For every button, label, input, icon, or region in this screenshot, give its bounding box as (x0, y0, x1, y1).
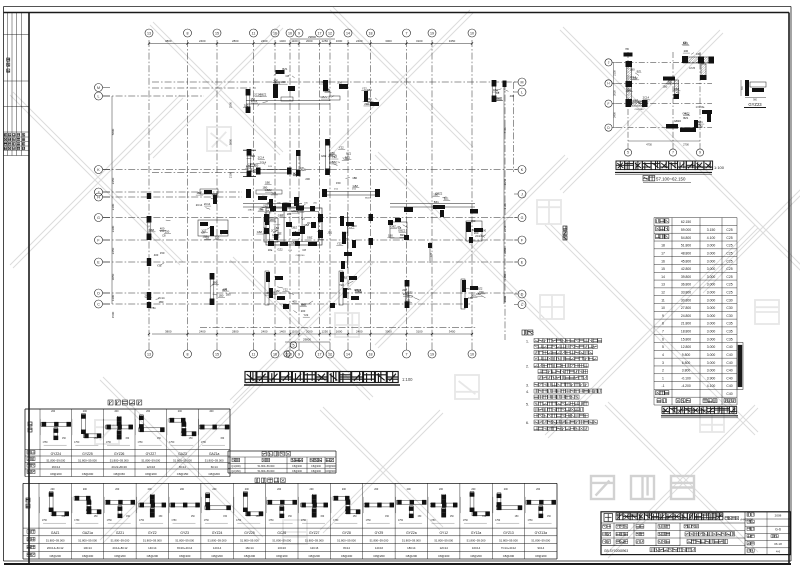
svg-text:C8@200: C8@200 (292, 465, 303, 468)
svg-text:GYZ24: GYZ24 (212, 531, 223, 535)
svg-text:3.000: 3.000 (707, 337, 716, 341)
stair plan cluster center (663, 77, 675, 81)
svg-text:2C14: 2C14 (254, 92, 261, 96)
svg-text:7: 7 (406, 352, 408, 356)
svg-text:1: 1 (662, 376, 664, 380)
svg-text:C8: C8 (162, 233, 166, 237)
right cluster D3 (466, 221, 482, 241)
wall column table left labels (26, 498, 30, 502)
svg-text:3.000: 3.000 (707, 314, 716, 318)
GYZ23 detail (745, 80, 749, 96)
svg-text:1750: 1750 (527, 520, 533, 522)
svg-text:1750: 1750 (106, 442, 112, 444)
svg-text:C40: C40 (726, 384, 732, 388)
svg-text:1150: 1150 (503, 274, 507, 281)
svg-text:2000: 2000 (306, 330, 313, 334)
svg-text:3.000: 3.000 (707, 330, 716, 334)
svg-text:1B0: 1B0 (265, 180, 270, 184)
svg-text:GYZ27: GYZ27 (309, 531, 320, 535)
wall column cluster A3 (axis 8/M) (323, 80, 328, 91)
bottom small ticks (283, 304, 289, 309)
svg-text:G: G (97, 216, 100, 220)
svg-text:200: 200 (439, 488, 444, 491)
svg-text:7: 7 (672, 151, 674, 155)
svg-text:150: 150 (336, 181, 341, 185)
svg-text:150: 150 (468, 296, 473, 300)
stair-roof plan bottom bubbles (624, 149, 631, 156)
svg-text:D: D (521, 292, 524, 296)
svg-text:1:100: 1:100 (402, 377, 413, 382)
svg-text:10C14: 10C14 (472, 546, 481, 550)
svg-text:4730: 4730 (646, 143, 652, 147)
svg-text:M: M (521, 80, 524, 84)
svg-text:J: J (521, 192, 523, 196)
svg-text:2400: 2400 (356, 39, 363, 43)
svg-text:200: 200 (482, 229, 487, 233)
svg-text:13: 13 (661, 283, 665, 287)
stair-roof plan subtitle (643, 176, 648, 181)
svg-text:2: 2 (662, 369, 664, 373)
svg-text:3800: 3800 (165, 330, 172, 334)
stair plan cluster top-right wall (683, 57, 713, 63)
svg-text:200: 200 (337, 81, 342, 85)
svg-text:LTB1: LTB1 (150, 308, 156, 310)
svg-text:8C14: 8C14 (343, 546, 350, 550)
svg-text:1750: 1750 (107, 520, 113, 522)
svg-text:51.800~59.000: 51.800~59.000 (531, 539, 550, 543)
svg-text:200: 200 (374, 488, 379, 491)
svg-text:Y22: Y22 (303, 313, 308, 317)
svg-text:B5@2: B5@2 (365, 198, 372, 200)
svg-text:C8@200: C8@200 (244, 554, 256, 558)
title block logo (604, 514, 613, 522)
svg-text:3000: 3000 (385, 330, 392, 334)
svg-text:4-6: 4-6 (776, 549, 781, 553)
svg-text:C8: C8 (248, 163, 252, 167)
svg-text:13: 13 (147, 31, 151, 35)
svg-text:C30: C30 (726, 306, 732, 310)
svg-text:1B0: 1B0 (291, 241, 296, 245)
svg-text:400: 400 (292, 300, 297, 304)
svg-text:2C14: 2C14 (158, 296, 165, 300)
svg-text:C35: C35 (726, 330, 732, 334)
svg-text:C25: C25 (726, 283, 732, 287)
wall pier table frame (25, 408, 230, 410)
svg-text:2130: 2130 (612, 70, 616, 76)
svg-text:18a: 18a (268, 248, 273, 252)
wall column cluster axis1/J (147, 217, 151, 239)
svg-text:1750: 1750 (42, 520, 48, 522)
svg-text:2C14: 2C14 (643, 95, 650, 99)
wall pier table title (108, 400, 113, 405)
svg-text:8C16+4C14: 8C16+4C14 (177, 546, 192, 550)
core right chain C3 (347, 212, 349, 268)
svg-text:1400: 1400 (279, 39, 286, 43)
svg-text:200: 200 (318, 219, 323, 223)
mid cluster D4 (405, 281, 409, 307)
svg-text:2400: 2400 (356, 330, 363, 334)
svg-text:400: 400 (154, 253, 159, 257)
svg-text:G8Z: G8Z (263, 230, 269, 234)
svg-text:BZ1: BZ1 (400, 233, 405, 237)
svg-text:1600: 1600 (336, 39, 343, 43)
svg-text:1500: 1500 (111, 311, 115, 318)
svg-text:1750: 1750 (495, 520, 501, 522)
svg-text:6C14: 6C14 (211, 465, 218, 469)
svg-text:5.: 5. (526, 403, 529, 407)
svg-text:C8: C8 (300, 166, 304, 170)
svg-text:G8Z: G8Z (391, 225, 397, 229)
svg-text:GYZ9: GYZ9 (375, 531, 384, 535)
stair-roof plan title (616, 161, 625, 170)
svg-text:2300: 2300 (111, 225, 115, 232)
svg-text:5: 5 (627, 151, 629, 155)
svg-text:51.800~59.000: 51.800~59.000 (78, 539, 97, 543)
svg-text:5800: 5800 (111, 128, 115, 135)
svg-text:LTB: LTB (288, 250, 292, 252)
svg-text:36.800: 36.800 (681, 283, 691, 287)
svg-text:27.800: 27.800 (681, 306, 691, 310)
svg-text:200: 200 (684, 49, 689, 53)
svg-text:Y22: Y22 (339, 145, 344, 149)
svg-text:H: H (97, 195, 100, 199)
stair plan cluster right-mid (702, 110, 712, 114)
svg-text:2.: 2. (526, 365, 529, 369)
notes block (522, 330, 527, 335)
svg-text:9C14: 9C14 (537, 546, 544, 550)
svg-text:1500: 1500 (503, 295, 507, 302)
wall column cluster axis1/E small (147, 258, 151, 266)
svg-text:16: 16 (273, 31, 277, 35)
svg-text:16C14: 16C14 (52, 465, 61, 469)
svg-text:Q1(200): Q1(200) (231, 465, 240, 468)
svg-text:Y22: Y22 (633, 76, 638, 80)
svg-text:C25: C25 (726, 267, 732, 271)
svg-text:C8@600: C8@600 (326, 465, 337, 468)
svg-text:200: 200 (305, 177, 310, 181)
svg-text:BZ1: BZ1 (637, 69, 642, 73)
left title strip table (7, 13, 9, 156)
svg-text:2400: 2400 (199, 39, 206, 43)
misc vertical label near plan right (563, 226, 567, 230)
svg-text:2020: 2020 (612, 90, 616, 96)
svg-text:51.800~59.000: 51.800~59.000 (208, 539, 227, 543)
svg-text:2350: 2350 (503, 178, 507, 185)
svg-text:2350: 2350 (111, 177, 115, 184)
svg-text:200: 200 (364, 102, 369, 106)
svg-text:06.18: 06.18 (774, 542, 782, 546)
right vertical dimension numbers (503, 82, 505, 304)
svg-text:4.: 4. (526, 390, 529, 394)
svg-text:42.800: 42.800 (681, 267, 691, 271)
svg-text:18C14: 18C14 (407, 546, 416, 550)
svg-text:2400: 2400 (612, 112, 616, 118)
svg-text:200: 200 (148, 488, 153, 491)
stair-roof plan left dim (613, 62, 615, 127)
svg-text:C8: C8 (322, 80, 326, 84)
svg-text:11: 11 (661, 298, 665, 302)
svg-text:F: F (608, 102, 610, 106)
svg-text:BZ1: BZ1 (347, 287, 352, 291)
mid cluster D5 (462, 280, 466, 292)
svg-text:150: 150 (367, 97, 372, 101)
main plan vertical grid lines (149, 40, 472, 345)
svg-text:3450: 3450 (449, 39, 456, 43)
wall pier table sketches (41, 422, 71, 426)
svg-text:29800: 29800 (303, 338, 311, 342)
svg-text:1B0: 1B0 (329, 153, 334, 157)
svg-text:10: 10 (288, 31, 292, 35)
svg-text:3.800: 3.800 (682, 369, 691, 373)
svg-text:150: 150 (160, 251, 165, 255)
svg-text:1B0: 1B0 (270, 218, 275, 222)
svg-text:L: L (521, 90, 523, 94)
svg-text:8: 8 (662, 322, 664, 326)
svg-text:17: 17 (318, 31, 322, 35)
svg-text:GBZ2: GBZ2 (398, 228, 406, 232)
svg-text:C8@200: C8@200 (535, 554, 547, 558)
svg-text:1400: 1400 (279, 330, 286, 334)
watermark bottom text (591, 476, 614, 499)
wall column cluster A5 (axis 12/M) (492, 81, 496, 101)
svg-text:18: 18 (369, 352, 373, 356)
svg-text:Y22: Y22 (339, 283, 344, 287)
svg-text:200: 200 (309, 488, 314, 491)
svg-text:51.800~59.000: 51.800~59.000 (305, 539, 324, 543)
svg-text:12C16: 12C16 (310, 546, 319, 550)
svg-text:51.800~59.000: 51.800~59.000 (46, 539, 65, 543)
svg-text:GB-SY02068963: GB-SY02068963 (604, 549, 628, 553)
svg-text:200: 200 (245, 488, 250, 491)
svg-text:13: 13 (147, 352, 151, 356)
svg-text:150: 150 (471, 219, 476, 223)
wall pier table left labels (28, 422, 32, 426)
svg-text:200: 200 (51, 410, 56, 413)
svg-text:12.800: 12.800 (681, 345, 691, 349)
svg-text:12C14: 12C14 (440, 546, 449, 550)
svg-text:GBZ2: GBZ2 (330, 160, 338, 164)
svg-text:C40: C40 (726, 376, 732, 380)
svg-text:GYZ25: GYZ25 (82, 452, 93, 456)
svg-text:C: C (97, 302, 100, 306)
svg-text:2500: 2500 (229, 101, 233, 108)
stair plan cluster mid-left wall (627, 101, 644, 106)
svg-text:1B0: 1B0 (159, 300, 164, 304)
wall column cluster A7 (axis 3/K) (247, 150, 251, 176)
svg-text:C8@200: C8@200 (82, 554, 94, 558)
svg-text:9: 9 (699, 151, 701, 155)
title block frame (601, 512, 791, 555)
svg-text:51.800~59.000: 51.800~59.000 (258, 470, 275, 473)
svg-text:1300: 1300 (111, 294, 115, 301)
svg-text:400: 400 (265, 291, 270, 295)
svg-text:200: 200 (114, 410, 119, 413)
svg-text:12: 12 (328, 31, 332, 35)
svg-text:C8: C8 (272, 291, 276, 295)
svg-text:1B0: 1B0 (196, 191, 201, 195)
svg-text:1250: 1250 (322, 330, 329, 334)
top axis bubbles (145, 29, 153, 37)
svg-text:10: 10 (470, 352, 474, 356)
svg-text:GZ21: GZ21 (116, 531, 124, 535)
title block bottom long row (601, 545, 745, 547)
svg-text:18: 18 (661, 244, 665, 248)
svg-text:GYZ2: GYZ2 (148, 531, 157, 535)
vertical dim line x430 (429, 242, 431, 263)
svg-text:C8@200: C8@200 (503, 554, 515, 558)
wall column cluster row J (axis 2-7) (246, 189, 251, 198)
svg-text:200: 200 (407, 488, 412, 491)
svg-text:15.800: 15.800 (681, 337, 691, 341)
left axis bubbles (95, 84, 103, 92)
svg-text:8: 8 (187, 31, 189, 35)
svg-text:C8@200: C8@200 (470, 554, 482, 558)
svg-text:17: 17 (661, 251, 665, 255)
svg-text:1600: 1600 (336, 330, 343, 334)
svg-text:10: 10 (470, 31, 474, 35)
svg-text:C8@200: C8@200 (276, 554, 288, 558)
svg-text:51.800~59.000: 51.800~59.000 (111, 539, 130, 543)
bottom axis bubbles (145, 350, 153, 358)
svg-text:1B0: 1B0 (352, 176, 357, 180)
svg-text:GAZ1: GAZ1 (51, 531, 60, 535)
svg-text:1750: 1750 (137, 442, 143, 444)
svg-text:3800: 3800 (165, 39, 172, 43)
main plan title (245, 372, 256, 383)
svg-text:1750: 1750 (398, 520, 404, 522)
svg-text:3.000: 3.000 (707, 259, 716, 263)
svg-text:16: 16 (273, 352, 277, 356)
svg-text:16C14: 16C14 (245, 546, 254, 550)
svg-text:GYZ25: GYZ25 (244, 531, 255, 535)
svg-text:GAZ1a: GAZ1a (82, 531, 93, 535)
svg-text:C8@200: C8@200 (311, 465, 322, 468)
svg-text:2008: 2008 (775, 513, 782, 517)
svg-text:16: 16 (661, 259, 665, 263)
svg-text:3.000: 3.000 (707, 322, 716, 326)
svg-text:57.100~62.150: 57.100~62.150 (656, 177, 686, 182)
svg-text:1B0: 1B0 (630, 68, 635, 72)
svg-text:C8@200: C8@200 (147, 554, 159, 558)
core left cluster C0 (198, 220, 228, 236)
svg-text:17: 17 (318, 352, 322, 356)
svg-text:39.800: 39.800 (681, 275, 691, 279)
svg-text:Y22: Y22 (277, 276, 282, 280)
svg-text:GBZ: GBZ (278, 213, 284, 217)
svg-text:BZ1: BZ1 (638, 101, 643, 105)
wall web reinforcement sub-table (228, 450, 336, 452)
svg-text:3.000: 3.000 (707, 298, 716, 302)
svg-text:1750: 1750 (236, 520, 242, 522)
svg-text:19: 19 (430, 352, 434, 356)
svg-text:51.800~59.000: 51.800~59.000 (467, 539, 486, 543)
svg-text:C8@200: C8@200 (50, 472, 62, 476)
svg-text:12: 12 (328, 352, 332, 356)
svg-text:2450: 2450 (111, 247, 115, 254)
small wall x298 K (296, 151, 298, 177)
svg-text:C8@200: C8@200 (82, 472, 94, 476)
svg-text:59.000: 59.000 (681, 228, 691, 232)
svg-text:6: 6 (286, 352, 288, 356)
svg-text:1250: 1250 (322, 39, 329, 43)
svg-text:14C16: 14C16 (375, 546, 384, 550)
svg-text:2C14: 2C14 (145, 293, 152, 297)
svg-text:BZ1: BZ1 (406, 298, 411, 302)
svg-text:5500: 5500 (503, 126, 507, 133)
svg-text:200: 200 (146, 410, 151, 413)
svg-text:BZ1: BZ1 (293, 172, 298, 176)
svg-text:G8Z: G8Z (301, 302, 307, 306)
svg-text:2400: 2400 (199, 330, 206, 334)
svg-text:200: 200 (180, 488, 185, 491)
svg-text:GAZ1a: GAZ1a (209, 452, 220, 456)
wall column table frame (23, 482, 557, 484)
svg-text:14C14: 14C14 (148, 546, 157, 550)
svg-text:2450: 2450 (503, 225, 507, 232)
svg-text:C8@200: C8@200 (308, 554, 320, 558)
svg-text:33.800: 33.800 (681, 290, 691, 294)
svg-text:D: D (97, 291, 100, 295)
svg-text:21.800: 21.800 (681, 322, 691, 326)
svg-text:GAZ3: GAZ3 (178, 452, 187, 456)
svg-text:Y22: Y22 (362, 87, 367, 91)
svg-text:C40: C40 (726, 361, 732, 365)
svg-text:C40: C40 (726, 392, 732, 396)
svg-text:3100: 3100 (416, 330, 423, 334)
svg-text:51.800~59.000: 51.800~59.000 (46, 458, 65, 462)
svg-text:3.150: 3.150 (707, 228, 716, 232)
svg-text:C8: C8 (496, 91, 500, 95)
certificate no (725, 517, 728, 520)
svg-text:7C14+4C12: 7C14+4C12 (501, 546, 516, 550)
wall wall segment K row (243, 149, 256, 151)
svg-text:C8@200: C8@200 (145, 472, 157, 476)
svg-text:1B0: 1B0 (212, 280, 217, 284)
svg-text:4.100: 4.100 (707, 236, 716, 240)
svg-text:18: 18 (369, 31, 373, 35)
svg-text:18a: 18a (293, 230, 298, 234)
svg-text:GBZ: GBZ (291, 226, 297, 230)
svg-text:GY12a: GY12a (471, 531, 481, 535)
svg-text:BZ1: BZ1 (683, 116, 688, 120)
mid cluster C5 (266, 272, 270, 282)
svg-text:3100: 3100 (416, 39, 423, 43)
svg-text:C8@200: C8@200 (311, 470, 322, 473)
svg-text:51.800~59.000: 51.800~59.000 (110, 458, 129, 462)
wall column table title (255, 478, 260, 483)
svg-text:BZ1: BZ1 (345, 155, 350, 159)
svg-text:Q1: Q1 (307, 221, 311, 225)
svg-text:5: 5 (662, 345, 664, 349)
svg-text:C8: C8 (302, 248, 306, 252)
svg-text:C8@200: C8@200 (296, 255, 305, 257)
svg-text:G8Z: G8Z (149, 228, 155, 232)
svg-text:62.150: 62.150 (681, 220, 691, 224)
svg-text:51.800~59.000: 51.800~59.000 (337, 539, 356, 543)
svg-text:C30: C30 (726, 298, 732, 302)
svg-text:C25: C25 (726, 251, 732, 255)
svg-text:C30: C30 (431, 252, 433, 257)
svg-text:C25: C25 (726, 228, 732, 232)
svg-text:48.800: 48.800 (681, 251, 691, 255)
svg-text:JD1: JD1 (327, 231, 332, 235)
svg-text:G: G (521, 216, 524, 220)
svg-text:GYZ8: GYZ8 (342, 531, 351, 535)
svg-text:9: 9 (298, 352, 300, 356)
svg-text:BZ1: BZ1 (698, 120, 703, 124)
svg-text:20C14+6C12: 20C14+6C12 (47, 546, 64, 550)
svg-text:BZ1: BZ1 (282, 67, 287, 71)
